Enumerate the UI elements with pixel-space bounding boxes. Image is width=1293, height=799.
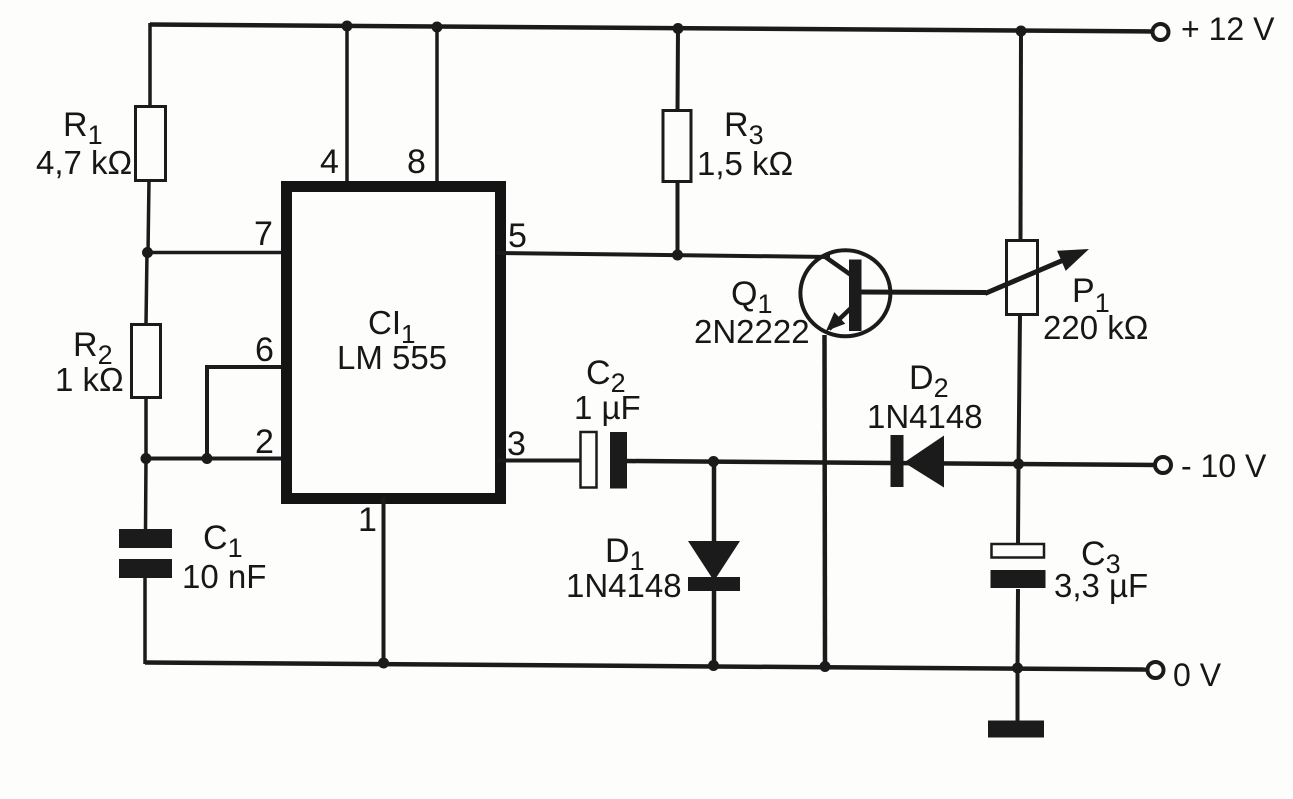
node top rail R3 <box>673 23 684 34</box>
terminal -10V circle <box>1155 457 1171 473</box>
node top rail P1 <box>1016 26 1027 37</box>
resistor R2 <box>132 325 161 398</box>
ground <box>988 721 1044 738</box>
potentiometer P1 body <box>1007 241 1038 315</box>
terminal 0V circle <box>1148 662 1164 678</box>
wire D1 anode <box>712 461 717 543</box>
wire C1 bottom to bottom rail <box>143 578 147 664</box>
wire pin 2 <box>146 457 284 461</box>
wire pin 6 <box>205 365 284 369</box>
wire R3 top <box>676 28 681 110</box>
terminal +12V circle <box>1153 24 1169 40</box>
wire Q1 emitter down to bottom rail <box>822 335 827 667</box>
wire P1 bottom to -10V wire <box>1019 314 1021 465</box>
resistor R1 <box>136 107 166 181</box>
svg-text:7: 7 <box>254 215 273 253</box>
capacitor C2 left plate (white) <box>581 432 597 488</box>
transistor Q1 emitter arrowhead <box>826 312 845 331</box>
svg-text:1: 1 <box>358 501 377 539</box>
svg-text:LM 555: LM 555 <box>337 339 447 376</box>
svg-text:+ 12 V: + 12 V <box>1181 11 1275 47</box>
svg-text:1,5 kΩ: 1,5 kΩ <box>697 145 793 182</box>
capacitor C2 right plate (black) <box>610 432 627 489</box>
IC CI1 LM 555 <box>287 187 501 499</box>
svg-text:0 V: 0 V <box>1173 657 1222 693</box>
svg-text:5: 5 <box>508 217 527 255</box>
diode D1 cathode bar <box>688 577 740 591</box>
svg-text:1N4148: 1N4148 <box>867 398 983 435</box>
svg-text:3: 3 <box>507 425 526 463</box>
diode D2 triangle <box>904 436 944 488</box>
capacitor C3 top plate (white) <box>992 544 1045 558</box>
svg-text:4: 4 <box>320 143 339 181</box>
node junction R1/R2/pin7 <box>142 247 153 258</box>
svg-text:220 kΩ: 220 kΩ <box>1043 309 1148 346</box>
wire ground stub <box>1016 668 1020 722</box>
node pin1 bottom rail <box>378 658 389 669</box>
wire Q1 collector to P1 wiper <box>861 290 986 296</box>
wire left vertical from top rail to R1 <box>148 23 152 106</box>
wire R2 bottom to node pin2 <box>144 397 148 459</box>
wire R1 bottom to node pin7 <box>148 180 149 253</box>
wire bottom rail 0V <box>145 663 1147 670</box>
node D1 bottom rail <box>708 660 719 671</box>
transistor Q1 collector slant <box>824 256 851 275</box>
node C3/ground bottom rail <box>1012 663 1023 674</box>
transistor Q1 base bar <box>849 260 862 332</box>
potentiometer P1 wiper line <box>985 256 1073 294</box>
node P1/C3/-10V junction <box>1013 459 1024 470</box>
node D1 top <box>708 456 719 467</box>
capacitor C1 top plate <box>119 529 172 548</box>
potentiometer P1 wiper arrowhead <box>1057 249 1089 271</box>
wire C3 bottom to bottom rail <box>1016 589 1021 668</box>
wire P1 top <box>1019 31 1024 240</box>
node junction R2/C1/pin2 <box>141 453 152 464</box>
svg-text:10 nF: 10 nF <box>182 558 266 595</box>
wire pin 3 <box>497 459 581 463</box>
svg-text:1N4148: 1N4148 <box>566 567 682 604</box>
wire node pin2 down to C1 <box>144 458 148 530</box>
node pin5/R3 junction <box>672 250 683 261</box>
svg-text:- 10 V: - 10 V <box>1181 448 1267 484</box>
wire pin6 link vertical <box>205 365 209 458</box>
wire node to R2 <box>146 252 147 324</box>
wire pin 5 to transistor base <box>497 253 830 257</box>
svg-text:3,3 µF: 3,3 µF <box>1054 567 1148 604</box>
svg-text:1 kΩ: 1 kΩ <box>55 361 124 398</box>
resistor R3 <box>663 111 691 182</box>
svg-text:8: 8 <box>407 143 426 181</box>
svg-text:6: 6 <box>255 331 274 369</box>
wire pin 1 vertical <box>382 497 386 664</box>
wire pin 7 <box>147 251 284 255</box>
node top rail pin4 <box>342 21 353 32</box>
node junction pin6 link on pin2 wire <box>202 453 213 464</box>
capacitor C3 bottom plate (black) <box>991 570 1046 588</box>
transistor Q1 emitter slant <box>829 308 851 329</box>
svg-text:2: 2 <box>255 423 274 461</box>
wire D1 cathode to bottom rail <box>712 589 717 666</box>
diode D1 triangle <box>688 541 740 581</box>
transistor Q1 circle <box>800 250 890 336</box>
wire C3 top <box>1016 464 1021 545</box>
svg-text:2N2222: 2N2222 <box>694 313 810 350</box>
wire C2 to -10V terminal <box>627 461 1155 465</box>
wire pin 8 vertical <box>435 27 439 182</box>
wire top rail +12V <box>150 25 1153 32</box>
capacitor C1 bottom plate <box>119 559 172 578</box>
diode D2 cathode bar <box>891 435 904 487</box>
svg-text:4,7 kΩ: 4,7 kΩ <box>36 144 132 181</box>
wire pin 4 vertical <box>345 26 349 182</box>
svg-text:1 µF: 1 µF <box>574 389 641 426</box>
wire R3 bottom to pin5 wire <box>676 181 680 255</box>
node top rail pin8 <box>432 22 443 33</box>
node Q1 emitter bottom rail <box>820 661 831 672</box>
